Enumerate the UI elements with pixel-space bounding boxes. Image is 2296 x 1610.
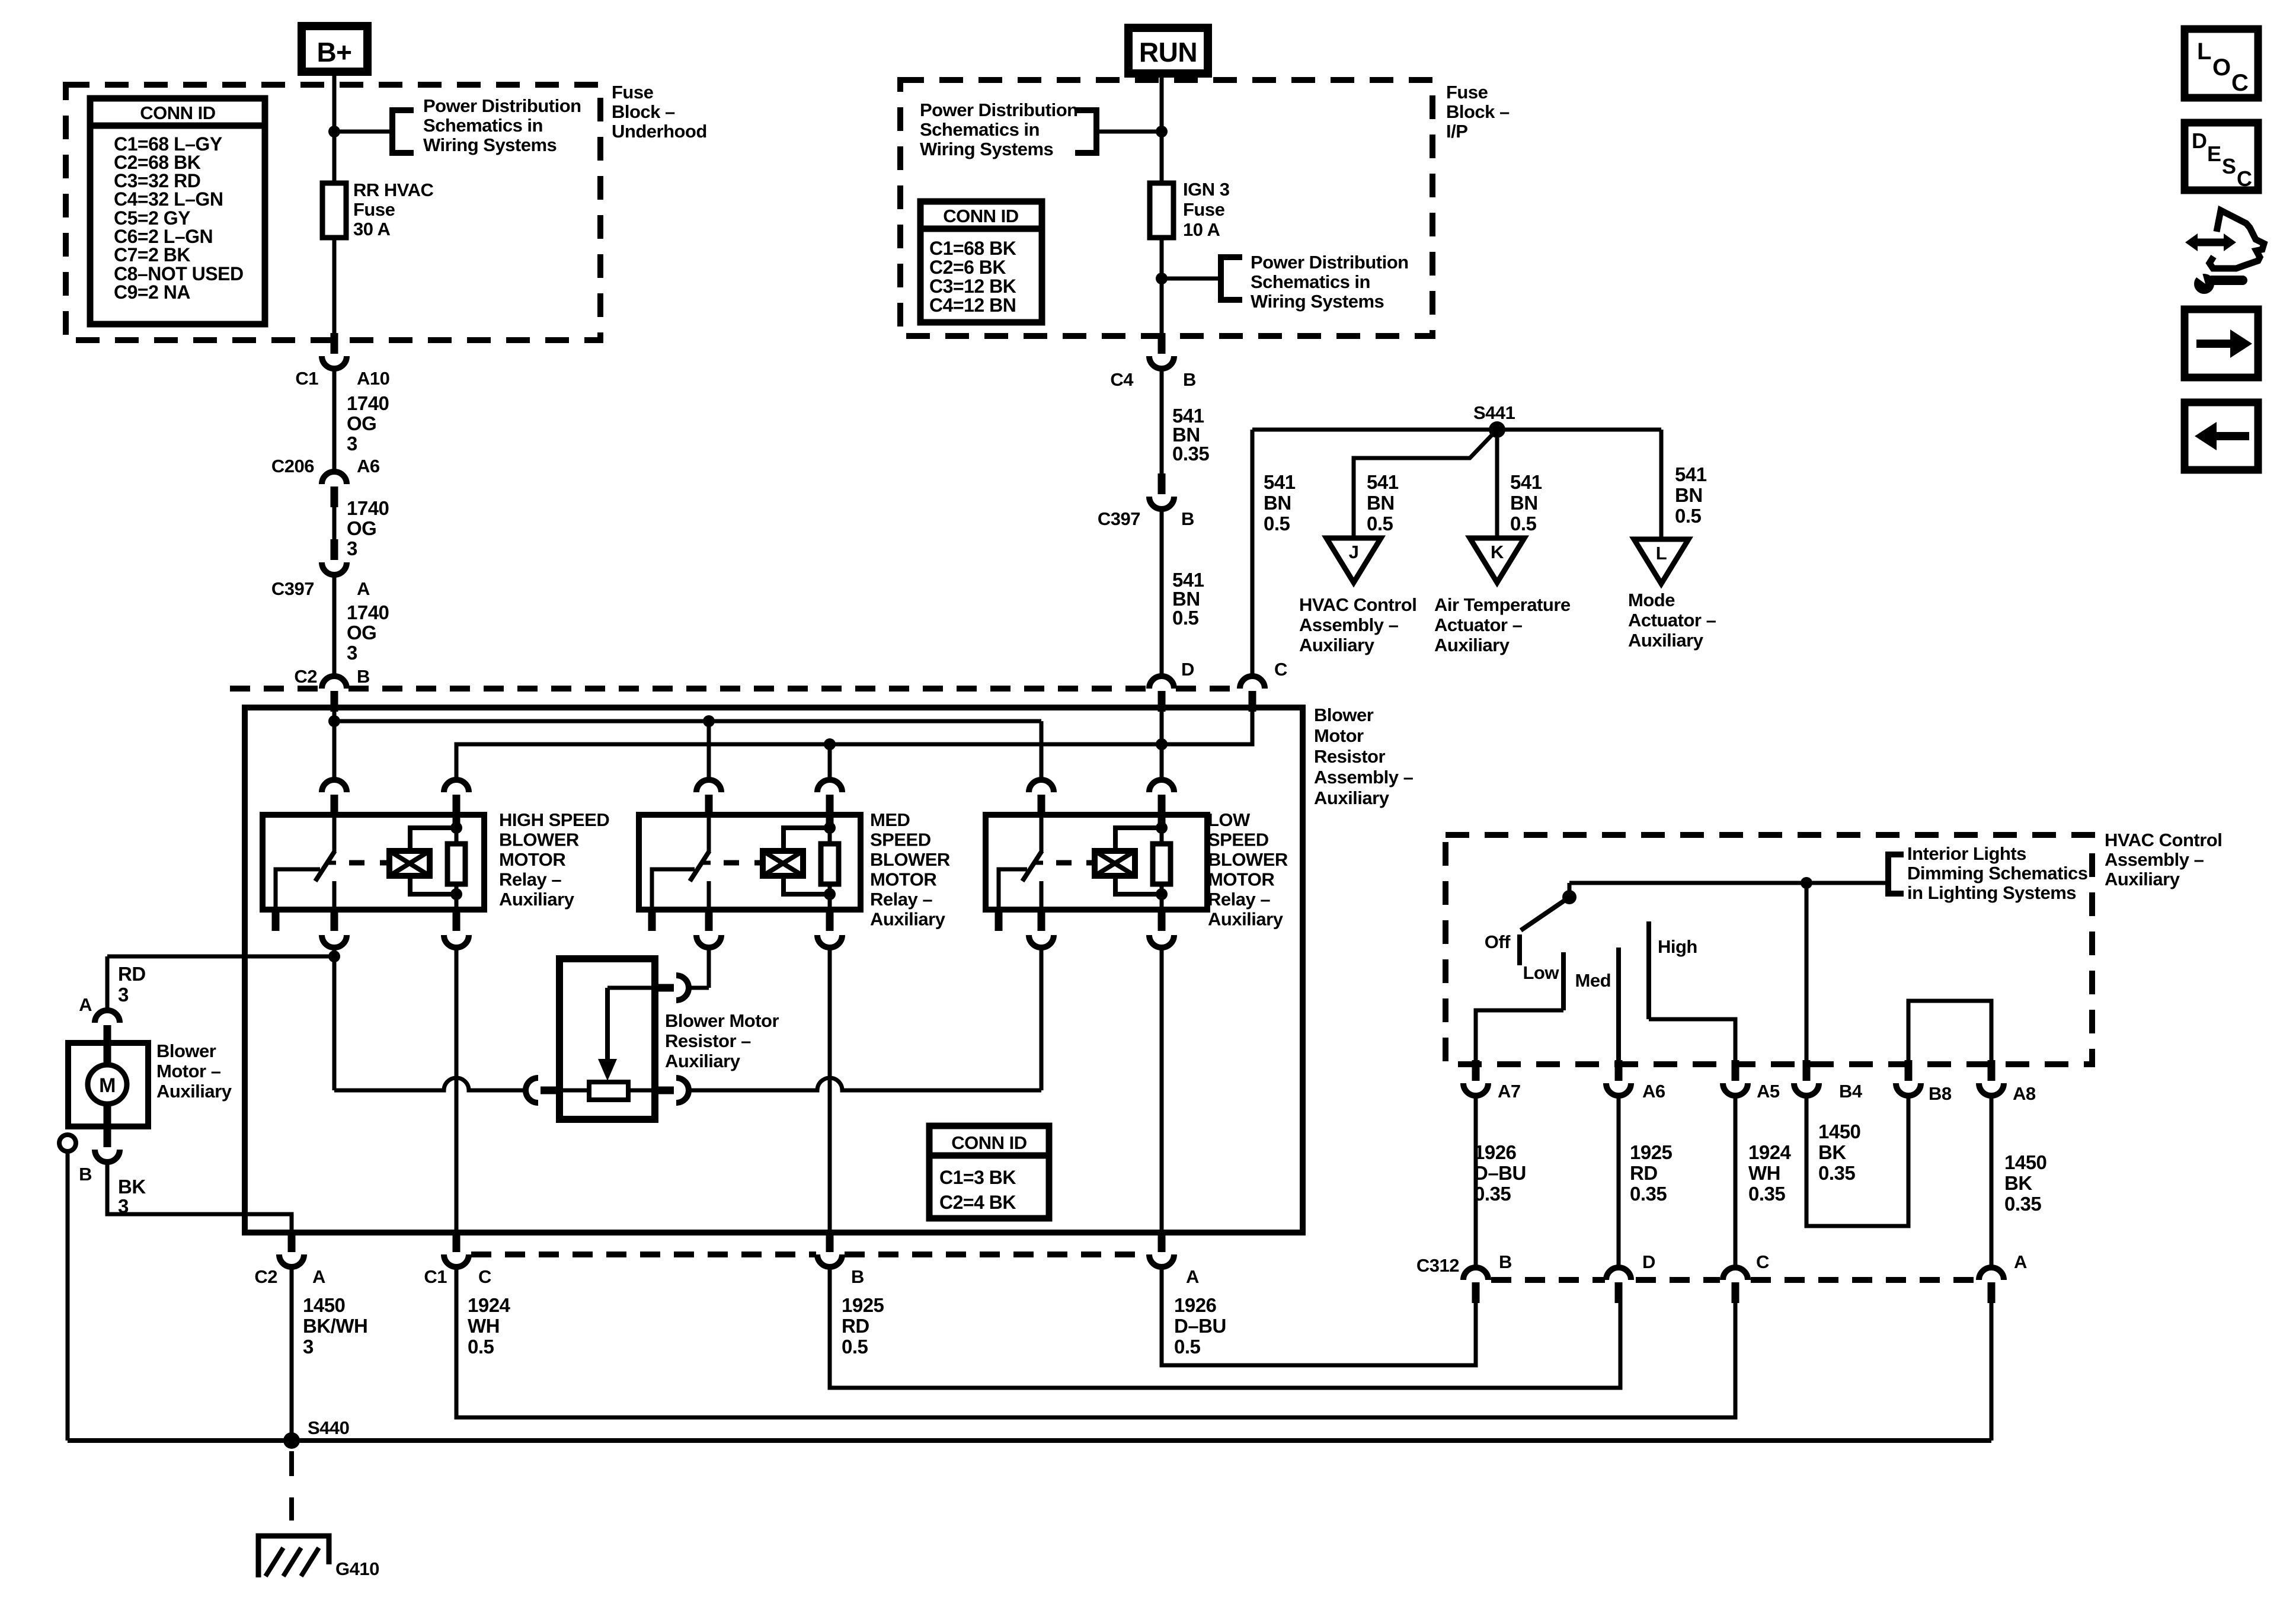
switch contact Med / wire to A6 bbox=[1616, 948, 1621, 1064]
svg-text:MOTOR: MOTOR bbox=[499, 849, 565, 870]
svg-text:L: L bbox=[2197, 39, 2211, 65]
svg-text:BLOWER: BLOWER bbox=[1208, 849, 1288, 870]
svg-text:1926: 1926 bbox=[1174, 1294, 1217, 1316]
label Fuse Block - Underhood bbox=[612, 82, 707, 142]
off-page triangle J bbox=[1326, 538, 1381, 582]
svg-text:High: High bbox=[1658, 936, 1697, 957]
svg-text:in Lighting Systems: in Lighting Systems bbox=[1907, 882, 2076, 903]
callout bracket Interior Lights bbox=[1888, 854, 1904, 894]
svg-text:0.5: 0.5 bbox=[1510, 513, 1537, 534]
svg-text:A: A bbox=[2014, 1251, 2027, 1272]
connector resistor right bbox=[653, 1078, 689, 1103]
svg-text:Wiring Systems: Wiring Systems bbox=[423, 135, 557, 155]
svg-text:S440: S440 bbox=[308, 1417, 349, 1438]
svg-text:B: B bbox=[1499, 1251, 1512, 1272]
svg-text:LOW: LOW bbox=[1208, 809, 1251, 830]
svg-text:Power Distribution: Power Distribution bbox=[423, 95, 581, 116]
svg-text:C2=4 BK: C2=4 BK bbox=[939, 1192, 1016, 1213]
svg-text:3: 3 bbox=[347, 433, 357, 454]
relay MED SPEED BLOWER MOTOR Relay - Auxiliary bbox=[639, 780, 861, 948]
svg-text:Underhood: Underhood bbox=[612, 121, 707, 142]
wire label 1740 OG 3 (1) bbox=[347, 392, 389, 454]
svg-text:Motor –: Motor – bbox=[156, 1061, 221, 1081]
svg-text:C1=68 BK: C1=68 BK bbox=[929, 238, 1016, 259]
svg-text:B: B bbox=[1183, 369, 1196, 390]
svg-text:C4=12 BN: C4=12 BN bbox=[929, 295, 1016, 316]
connector B8 bbox=[1896, 1060, 1921, 1096]
wire 1740 OG segment 2 bbox=[332, 507, 337, 540]
connector A (bottom) bbox=[1149, 1231, 1174, 1267]
svg-text:Auxiliary: Auxiliary bbox=[1434, 635, 1510, 655]
wire to callout bracket bbox=[334, 130, 392, 134]
svg-text:Assembly –: Assembly – bbox=[2105, 849, 2204, 870]
svg-text:C2: C2 bbox=[294, 666, 317, 687]
wire LOW switch output bbox=[1040, 948, 1044, 1090]
connector C1 C (bottom) bbox=[444, 1231, 469, 1267]
connector C206 A6 bbox=[322, 472, 347, 507]
svg-text:Off: Off bbox=[1485, 932, 1511, 952]
wire D into coil bus / LOW coil pin bbox=[1160, 712, 1164, 778]
dashed box Fuse Block - I/P bbox=[900, 80, 1432, 336]
junction at B4 feed bbox=[1801, 877, 1812, 889]
wire label 1924 WH 0.35 bbox=[1748, 1141, 1792, 1205]
wire B4 inside box bbox=[1805, 883, 1809, 1064]
svg-text:Blower: Blower bbox=[1314, 705, 1374, 725]
wire resistor right to LOW switch (with hop) bbox=[689, 1078, 1041, 1090]
svg-text:J: J bbox=[1349, 542, 1359, 562]
connector C2 B (into assembly) bbox=[322, 676, 347, 712]
wire label 1450 BK/WH 3 bbox=[303, 1294, 367, 1358]
fuse IGN 3 10 A bbox=[1150, 183, 1173, 238]
label HVAC Control Assembly - Auxiliary bbox=[2105, 830, 2222, 889]
svg-text:0.35: 0.35 bbox=[1630, 1183, 1667, 1205]
svg-text:BN: BN bbox=[1510, 492, 1538, 514]
switch pivot bbox=[1562, 890, 1576, 904]
wire to callout bracket (ip upper) bbox=[1098, 130, 1162, 134]
wire A8 to ground bus bbox=[1990, 1301, 1994, 1441]
svg-text:Auxiliary: Auxiliary bbox=[1299, 635, 1375, 655]
svg-text:10 A: 10 A bbox=[1183, 219, 1220, 240]
wire fuse to C4 connector bbox=[1160, 238, 1164, 333]
svg-text:B+: B+ bbox=[316, 37, 351, 68]
svg-text:Schematics in: Schematics in bbox=[920, 119, 1040, 140]
svg-text:0.35: 0.35 bbox=[1748, 1183, 1785, 1205]
label Air Temperature Actuator - Auxiliary (K) bbox=[1434, 594, 1571, 655]
wire switch bus (30 pins) bbox=[334, 719, 1041, 724]
svg-text:1924: 1924 bbox=[468, 1294, 511, 1316]
svg-text:C: C bbox=[1274, 659, 1287, 680]
icon DESC bbox=[2185, 123, 2258, 191]
svg-text:C: C bbox=[2237, 167, 2252, 191]
svg-text:BN: BN bbox=[1367, 492, 1395, 514]
switch contact Off bbox=[1517, 934, 1522, 965]
connector C2 A (bottom) bbox=[279, 1231, 304, 1267]
svg-text:SPEED: SPEED bbox=[1208, 830, 1269, 850]
wire label 1926 D-BU 0.35 bbox=[1474, 1141, 1526, 1205]
svg-text:Wiring Systems: Wiring Systems bbox=[920, 139, 1053, 159]
connector C1 A10 bbox=[322, 333, 347, 369]
connector resistor top (wiper) bbox=[653, 975, 689, 1000]
svg-text:BK: BK bbox=[1818, 1141, 1846, 1163]
svg-text:RUN: RUN bbox=[1139, 37, 1197, 68]
wire label RD 3 bbox=[118, 963, 146, 1006]
svg-text:0.5: 0.5 bbox=[1367, 513, 1393, 534]
svg-text:A7: A7 bbox=[1498, 1081, 1521, 1102]
svg-text:C: C bbox=[1756, 1251, 1769, 1272]
svg-text:30 A: 30 A bbox=[353, 219, 390, 239]
wire B+ to fuse bbox=[332, 72, 337, 183]
svg-text:Actuator –: Actuator – bbox=[1434, 614, 1523, 635]
dashed box HVAC Control Assembly bbox=[1446, 835, 2092, 1064]
connector resistor left bbox=[526, 1078, 561, 1103]
svg-text:0.5: 0.5 bbox=[842, 1336, 868, 1358]
ground bus wire bbox=[68, 1438, 1991, 1443]
svg-text:A: A bbox=[312, 1266, 325, 1287]
svg-text:Fuse: Fuse bbox=[612, 82, 654, 103]
svg-text:K: K bbox=[1491, 542, 1504, 562]
svg-text:1450: 1450 bbox=[1818, 1121, 1860, 1142]
svg-text:Auxiliary: Auxiliary bbox=[156, 1081, 232, 1102]
connector C312 C bbox=[1723, 1267, 1748, 1303]
svg-text:Assembly –: Assembly – bbox=[1314, 767, 1414, 788]
svg-text:A: A bbox=[357, 578, 370, 599]
CONN ID table (resistor assembly) bbox=[929, 1126, 1049, 1218]
ground symbol G410 bbox=[258, 1536, 329, 1577]
wire label 541 BN 0.5 (L branch) bbox=[1675, 463, 1707, 527]
svg-text:Fuse: Fuse bbox=[1183, 199, 1225, 220]
CONN ID table (ip fuse block) bbox=[920, 201, 1042, 322]
junction on RUN wire bbox=[1156, 126, 1168, 137]
switch contact Low bbox=[1561, 952, 1566, 1010]
wire 1924 WH 0.35 (A5) bbox=[1734, 1096, 1738, 1267]
svg-text:BK: BK bbox=[2004, 1172, 2032, 1194]
blower motor M bbox=[68, 1043, 148, 1126]
svg-text:BN: BN bbox=[1675, 484, 1703, 506]
connector A7 bbox=[1463, 1060, 1488, 1096]
svg-text:Schematics in: Schematics in bbox=[1251, 271, 1370, 292]
wire LOW coil output down to A bbox=[1160, 948, 1164, 1233]
relay HIGH SPEED BLOWER MOTOR Relay - Auxiliary bbox=[263, 780, 484, 948]
wire High to A5 bbox=[1649, 1019, 1735, 1064]
relay LOW SPEED BLOWER MOTOR Relay - Auxiliary bbox=[986, 780, 1207, 948]
label RR HVAC Fuse 30 A bbox=[353, 180, 434, 239]
connector B (bottom) bbox=[817, 1231, 842, 1267]
svg-text:G410: G410 bbox=[335, 1558, 379, 1579]
svg-text:1740: 1740 bbox=[347, 497, 389, 519]
svg-text:BN: BN bbox=[1264, 492, 1291, 514]
wire RD to motor (horizontal) bbox=[107, 955, 334, 959]
svg-text:0.5: 0.5 bbox=[1172, 607, 1199, 629]
svg-text:D: D bbox=[1642, 1251, 1655, 1272]
connector A8 bbox=[1979, 1060, 2004, 1096]
connector C312 D bbox=[1606, 1267, 1631, 1303]
svg-text:3: 3 bbox=[347, 642, 357, 664]
svg-text:OG: OG bbox=[347, 412, 376, 434]
svg-text:0.35: 0.35 bbox=[1818, 1162, 1855, 1184]
case ground circle at motor bbox=[59, 1135, 76, 1151]
wire S441 to K bbox=[1495, 430, 1499, 538]
connector C397 A bbox=[322, 539, 347, 575]
svg-text:C206: C206 bbox=[271, 456, 314, 476]
svg-text:B: B bbox=[357, 666, 370, 687]
wire 1925 RD 0.35 (A6) bbox=[1617, 1096, 1621, 1267]
dashed box Fuse Block - Underhood bbox=[66, 85, 600, 340]
wire B into switch bus bbox=[332, 712, 337, 778]
junction coil bus at D bbox=[1156, 738, 1168, 750]
splice S440 bbox=[283, 1432, 300, 1449]
dashed C312 row segment 3 bbox=[1751, 1277, 1977, 1283]
wire switch bus to LOW switch pin bbox=[1040, 721, 1044, 778]
power symbol RUN bbox=[1128, 28, 1208, 73]
wire 541 BN 0.5 to D bbox=[1160, 509, 1164, 676]
connector motor B bbox=[95, 1126, 120, 1162]
svg-text:Relay –: Relay – bbox=[870, 889, 932, 910]
wire 1925 RD to C312 D bbox=[830, 1267, 1620, 1388]
svg-text:OG: OG bbox=[347, 622, 376, 644]
label Power Distribution Schematics (ip lower) bbox=[1251, 252, 1409, 312]
svg-text:C2: C2 bbox=[254, 1266, 277, 1287]
wire to callout bracket (ip lower) bbox=[1162, 277, 1220, 281]
svg-text:Actuator –: Actuator – bbox=[1628, 610, 1716, 630]
svg-text:BK: BK bbox=[118, 1176, 146, 1198]
dashed connector row right segment bbox=[1176, 686, 1239, 692]
connector C4 B bbox=[1149, 333, 1174, 369]
svg-text:C397: C397 bbox=[271, 578, 314, 599]
wire fuse to C1 connector bbox=[332, 238, 337, 333]
svg-text:A6: A6 bbox=[357, 456, 380, 476]
wire label 1925 RD 0.5 bbox=[842, 1294, 884, 1358]
svg-text:Low: Low bbox=[1523, 962, 1560, 983]
svg-text:CONN ID: CONN ID bbox=[951, 1132, 1027, 1153]
svg-text:Schematics in: Schematics in bbox=[423, 115, 543, 136]
svg-text:0.5: 0.5 bbox=[468, 1336, 494, 1358]
svg-text:0.35: 0.35 bbox=[1172, 443, 1209, 465]
svg-text:RD: RD bbox=[842, 1315, 869, 1337]
svg-text:S441: S441 bbox=[1473, 402, 1515, 423]
svg-text:Air Temperature: Air Temperature bbox=[1434, 594, 1571, 615]
svg-text:A: A bbox=[1186, 1266, 1199, 1287]
svg-text:Auxiliary: Auxiliary bbox=[870, 909, 946, 930]
svg-text:WH: WH bbox=[468, 1315, 500, 1337]
svg-text:Auxiliary: Auxiliary bbox=[1628, 630, 1704, 651]
wire label 1740 OG 3 (3) bbox=[347, 601, 389, 664]
svg-text:0.35: 0.35 bbox=[2004, 1193, 2041, 1215]
wire to switch pivot bbox=[1568, 883, 1572, 896]
label relay LOW SPEED BLOWER MOTOR Relay - Auxiliary bbox=[1208, 809, 1288, 930]
wire MED switch output bbox=[707, 948, 711, 988]
svg-text:BLOWER: BLOWER bbox=[499, 830, 579, 850]
svg-text:Power Distribution: Power Distribution bbox=[1251, 252, 1409, 273]
dashed wire S440 to ground bbox=[289, 1451, 294, 1521]
junction switch bus at B bbox=[328, 715, 340, 727]
label relay HIGH SPEED BLOWER MOTOR Relay - Auxiliary bbox=[499, 809, 609, 910]
wire label 1926 D-BU 0.5 bbox=[1174, 1294, 1226, 1358]
wire label 541 BN 0.5 (K branch) bbox=[1510, 471, 1542, 534]
junction below IGN3 fuse bbox=[1156, 273, 1168, 284]
icon wrench and part outline bbox=[2185, 210, 2264, 294]
svg-text:RD: RD bbox=[118, 963, 146, 985]
switch arm (to Off) bbox=[1521, 897, 1569, 930]
connector C312 B bbox=[1463, 1267, 1488, 1303]
svg-text:3: 3 bbox=[347, 537, 357, 559]
wire MED switch output to resistor top connector bbox=[689, 986, 709, 990]
svg-text:C1: C1 bbox=[424, 1266, 447, 1287]
svg-text:1925: 1925 bbox=[1630, 1141, 1673, 1163]
label Fuse Block - I/P bbox=[1446, 82, 1510, 142]
wire RUN to fuse bbox=[1160, 73, 1164, 183]
svg-text:C9=2 NA: C9=2 NA bbox=[114, 281, 190, 303]
wire 1450 BK 0.35 (A8) bbox=[1990, 1096, 1994, 1267]
svg-text:1926: 1926 bbox=[1474, 1141, 1517, 1163]
splice S441 bbox=[1489, 421, 1505, 438]
svg-text:I/P: I/P bbox=[1446, 121, 1467, 142]
svg-text:Block –: Block – bbox=[1446, 101, 1510, 122]
blower motor resistor component bbox=[559, 959, 655, 1119]
wire RD to motor connector bbox=[105, 956, 110, 1010]
svg-text:C4: C4 bbox=[1110, 369, 1134, 390]
junction HIGH switch output / motor RD feed bbox=[328, 950, 340, 962]
svg-text:1450: 1450 bbox=[2004, 1151, 2046, 1173]
wire coil bus (86 pins) bbox=[456, 712, 1252, 778]
CONN ID table (underhood fuse block) bbox=[90, 98, 265, 324]
svg-text:RR HVAC: RR HVAC bbox=[353, 180, 434, 200]
svg-text:Blower: Blower bbox=[156, 1041, 216, 1061]
svg-text:B: B bbox=[79, 1164, 92, 1185]
wire 1740 OG segment 1 bbox=[332, 369, 337, 472]
connector C (into assembly) bbox=[1240, 676, 1265, 712]
wire BK to C2 A bbox=[107, 1162, 292, 1233]
connector motor A bbox=[95, 1010, 120, 1046]
svg-text:1924: 1924 bbox=[1748, 1141, 1792, 1163]
svg-text:0.5: 0.5 bbox=[1264, 513, 1290, 534]
svg-text:Auxiliary: Auxiliary bbox=[499, 889, 575, 910]
svg-text:Fuse: Fuse bbox=[353, 199, 395, 220]
icon arrow left bbox=[2185, 402, 2258, 470]
svg-text:Auxiliary: Auxiliary bbox=[665, 1051, 741, 1071]
svg-text:C1=3 BK: C1=3 BK bbox=[939, 1167, 1016, 1188]
off-page triangle L bbox=[1634, 539, 1689, 584]
svg-text:Fuse: Fuse bbox=[1446, 82, 1488, 103]
wire switch bus to MED switch pin bbox=[707, 721, 711, 778]
svg-text:BLOWER: BLOWER bbox=[870, 849, 950, 870]
wire Low to A7 bbox=[1476, 1010, 1563, 1064]
label Blower Motor Resistor Assembly - Auxiliary bbox=[1314, 705, 1414, 808]
svg-text:Auxiliary: Auxiliary bbox=[2105, 869, 2180, 889]
connector C397 B bbox=[1149, 473, 1174, 509]
svg-text:MOTOR: MOTOR bbox=[870, 869, 936, 890]
wire 1740 OG segment 3 bbox=[332, 575, 337, 676]
svg-text:C1: C1 bbox=[295, 368, 318, 389]
svg-text:C: C bbox=[2231, 70, 2248, 96]
svg-text:1450: 1450 bbox=[303, 1294, 345, 1316]
box Blower Motor Resistor Assembly bbox=[245, 708, 1303, 1233]
svg-text:541: 541 bbox=[1367, 471, 1399, 493]
dashed C312 row segment 1 bbox=[1491, 1277, 1605, 1283]
wire HIGH output to resistor left (with hop) bbox=[334, 1078, 526, 1090]
svg-text:D: D bbox=[1181, 659, 1194, 680]
wire label 1925 RD 0.35 bbox=[1630, 1141, 1673, 1205]
svg-text:B: B bbox=[1181, 508, 1194, 529]
svg-text:C312: C312 bbox=[1416, 1255, 1459, 1276]
svg-text:541: 541 bbox=[1510, 471, 1542, 493]
svg-text:1740: 1740 bbox=[347, 392, 389, 414]
svg-text:B4: B4 bbox=[1839, 1081, 1863, 1102]
wire S441 horizontal bus bbox=[1252, 428, 1661, 432]
svg-text:A: A bbox=[79, 994, 92, 1015]
off-page triangle K bbox=[1470, 538, 1524, 582]
wire HIGH coil output down to C1 C bbox=[455, 948, 459, 1233]
svg-text:B8: B8 bbox=[1929, 1083, 1952, 1104]
svg-text:L: L bbox=[1656, 543, 1667, 564]
svg-text:Resistor: Resistor bbox=[1314, 746, 1385, 767]
dashed C312 row segment 2 bbox=[1636, 1277, 1720, 1283]
wire label 541 BN 0.5 (C branch) bbox=[1264, 471, 1296, 534]
svg-text:3: 3 bbox=[303, 1336, 314, 1358]
icon arrow right bbox=[2185, 309, 2258, 377]
label Power Distribution Schematics (ip upper) bbox=[920, 100, 1078, 159]
switch contact High bbox=[1646, 921, 1651, 1019]
svg-text:Block –: Block – bbox=[612, 101, 675, 122]
label Blower Motor - Auxiliary bbox=[156, 1041, 232, 1102]
svg-text:Relay –: Relay – bbox=[1208, 889, 1270, 910]
svg-text:A5: A5 bbox=[1757, 1081, 1780, 1102]
svg-text:D–BU: D–BU bbox=[1174, 1315, 1226, 1337]
wire label 1740 OG 3 (2) bbox=[347, 497, 389, 559]
wire B8 to A8 jumper inside box bbox=[1908, 1001, 1991, 1063]
svg-text:HIGH SPEED: HIGH SPEED bbox=[499, 809, 609, 830]
svg-text:A10: A10 bbox=[357, 368, 389, 389]
dashed connector row middle segment bbox=[348, 686, 1147, 692]
wire 1926 D-BU 0.35 (A7) bbox=[1474, 1096, 1478, 1267]
svg-text:C: C bbox=[478, 1266, 491, 1287]
wire motor case to ground bus bbox=[66, 1151, 70, 1441]
svg-text:C4=32 L–GN: C4=32 L–GN bbox=[114, 188, 223, 210]
wire label 541 BN 0.5 (J branch) bbox=[1367, 471, 1399, 534]
svg-text:D–BU: D–BU bbox=[1474, 1162, 1526, 1184]
callout bracket Power Distribution (ip upper) bbox=[1075, 110, 1096, 153]
dashed connector row bottom segment 1 bbox=[471, 1251, 816, 1257]
label HVAC Control Assembly - Auxiliary (J) bbox=[1299, 594, 1416, 655]
icon LOC bbox=[2185, 29, 2258, 98]
label Blower Motor Resistor - Auxiliary bbox=[665, 1010, 779, 1071]
svg-text:C7=2 BK: C7=2 BK bbox=[114, 244, 190, 265]
wire 1924 WH to C312 C bbox=[456, 1267, 1735, 1417]
wire label 1450 BK 0.35 (B4) bbox=[1818, 1121, 1860, 1184]
wire label 541 BN 0.5 (D branch) bbox=[1172, 569, 1204, 629]
svg-text:Resistor –: Resistor – bbox=[665, 1030, 751, 1051]
svg-text:BK/WH: BK/WH bbox=[303, 1315, 367, 1337]
svg-text:0.5: 0.5 bbox=[1174, 1336, 1201, 1358]
svg-text:OG: OG bbox=[347, 517, 376, 539]
svg-text:RD: RD bbox=[1630, 1162, 1658, 1184]
svg-text:3: 3 bbox=[118, 984, 129, 1006]
wire label BK 3 bbox=[118, 1176, 146, 1217]
svg-text:Interior Lights: Interior Lights bbox=[1907, 843, 2026, 864]
svg-text:HVAC Control: HVAC Control bbox=[1299, 594, 1416, 615]
wire label 1924 WH 0.5 bbox=[468, 1294, 511, 1358]
wire coil bus to MED coil pin bbox=[828, 744, 832, 778]
wire HIGH switch output bbox=[332, 948, 337, 1090]
connector A6 bbox=[1606, 1060, 1631, 1096]
svg-text:Auxiliary: Auxiliary bbox=[1314, 788, 1390, 808]
connector A5 bbox=[1723, 1060, 1748, 1096]
svg-text:0.35: 0.35 bbox=[1474, 1183, 1511, 1205]
svg-text:S: S bbox=[2222, 154, 2236, 178]
svg-text:HVAC Control: HVAC Control bbox=[2105, 830, 2222, 850]
wire switch common to bracket bbox=[1569, 881, 1888, 885]
connector D (into assembly) bbox=[1149, 676, 1174, 712]
wire 1926 D-BU to C312 B bbox=[1162, 1267, 1476, 1365]
